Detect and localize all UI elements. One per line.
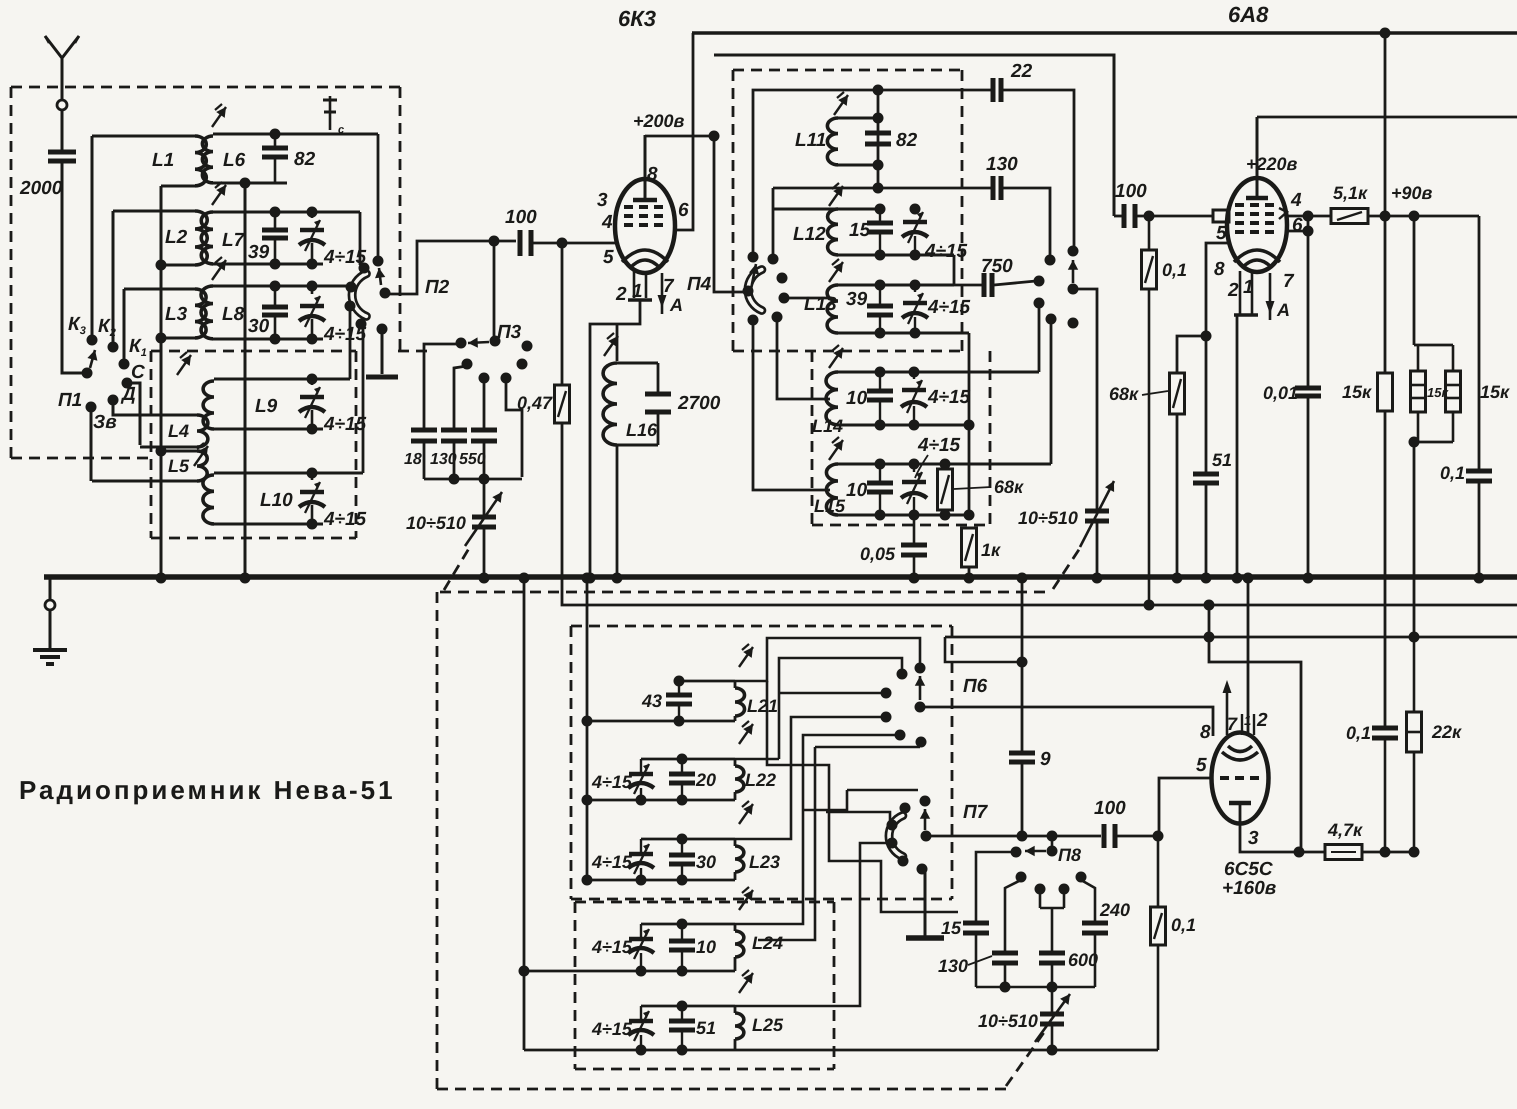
junction rail b <box>1047 982 1058 993</box>
label 2700 <box>677 393 721 414</box>
junction divider bias bus <box>1409 632 1420 643</box>
junction 6A8 cathode ground <box>1232 573 1243 584</box>
junction bias loop <box>1204 600 1215 643</box>
label 10:510 no.1 <box>406 513 466 533</box>
C51sw leads <box>681 1006 683 1050</box>
trimmer 4-15 L14 <box>901 372 927 425</box>
junction 6A8 anode <box>1303 211 1314 222</box>
label L12 <box>793 224 826 245</box>
label 10:510 no.3 <box>978 1011 1038 1031</box>
junction C005 ground <box>909 573 920 584</box>
wire P8ef join <box>1040 891 1064 951</box>
L15 top edge <box>838 463 1051 466</box>
svg-text:43: 43 <box>641 691 662 711</box>
gang link to trimmer C tune3 (dashed) <box>1006 1031 1045 1086</box>
trimmer 4-15 of L9 <box>299 379 325 429</box>
junction R1k ground <box>964 573 975 584</box>
label 30 sw <box>696 852 716 872</box>
label 4:15 L15 leader <box>915 435 961 478</box>
label 10 L15 <box>846 480 868 501</box>
label tube 6C5C <box>1224 859 1273 880</box>
6C5C pin2 lead <box>1242 578 1254 735</box>
junction +200v <box>709 131 720 142</box>
wire grid tap down to P3 <box>493 241 496 338</box>
junction C9 ground <box>1017 573 1028 584</box>
switch P5 contact 5 <box>1046 314 1057 325</box>
ground lead <box>49 610 52 649</box>
wire P3 to C550 <box>483 380 486 428</box>
svg-text:0,47: 0,47 <box>517 393 553 413</box>
svg-text:П4: П4 <box>687 274 712 295</box>
svg-text:Д: Д <box>120 384 136 405</box>
junction 68k tap <box>1201 331 1212 342</box>
junctions L23 <box>582 834 688 886</box>
coil L5 <box>92 451 207 481</box>
coil L14 <box>826 372 838 425</box>
P2 shield stub <box>366 331 398 377</box>
6K3 screen wire to bus A <box>675 33 693 230</box>
wire C130 to P5 <box>1003 188 1050 257</box>
svg-text:+90в: +90в <box>1391 183 1433 203</box>
label 600 <box>1068 950 1098 970</box>
svg-text:10: 10 <box>846 388 868 409</box>
label 6A8 pin 1 <box>1243 277 1254 298</box>
capacitor 750 <box>954 273 992 297</box>
wire P3 to R047 branch <box>506 380 522 477</box>
P3 contact 3 <box>462 359 473 370</box>
svg-text:L4: L4 <box>168 421 189 441</box>
label 10 L14 <box>846 388 868 409</box>
resistor 68k osc <box>938 469 953 510</box>
svg-text:П1: П1 <box>58 390 82 411</box>
svg-text:600: 600 <box>1068 950 1098 970</box>
svg-text:7: 7 <box>1227 714 1238 734</box>
label 6C5C pin 2 <box>1256 710 1268 731</box>
P8 rotor <box>1047 846 1058 857</box>
tuning arrow L7 <box>212 182 226 205</box>
wire C2000 to P1 rotor <box>62 163 84 373</box>
label 100 to 6A8 <box>1115 181 1147 202</box>
L14 bottom edge <box>838 424 969 427</box>
C10b leads <box>879 464 881 515</box>
label 51 <box>1212 450 1232 470</box>
svg-text:L22: L22 <box>745 770 776 790</box>
resistor 1k <box>962 528 977 567</box>
6A8 grid bracket <box>1279 208 1287 219</box>
L7 top edge <box>213 211 360 214</box>
junction anode b <box>1380 847 1391 858</box>
label C <box>131 362 145 383</box>
coil L8 <box>201 286 213 339</box>
svg-text:Радиоприемник Нева-51: Радиоприемник Нева-51 <box>19 775 396 805</box>
svg-text:3: 3 <box>597 190 608 211</box>
svg-text:4,7к: 4,7к <box>1327 820 1363 840</box>
wire C750 to P5 <box>994 281 1036 285</box>
trimmer 4-15 L25 <box>628 1006 654 1050</box>
L12 bottom edge <box>838 254 954 257</box>
switch P2 arc <box>352 274 366 317</box>
P8 contact f <box>1059 884 1070 895</box>
coil L25 <box>735 1013 744 1039</box>
6A8 grid return wire <box>1206 243 1228 472</box>
label P4 <box>687 274 712 295</box>
svg-text:L24: L24 <box>752 933 783 953</box>
junction L2 bottom <box>156 260 167 271</box>
wire C to L4 bottom <box>128 383 140 445</box>
svg-text:L9: L9 <box>255 396 278 417</box>
wire L6 to P2 top contact <box>377 134 380 259</box>
label K2 <box>98 316 116 339</box>
svg-text:30: 30 <box>696 852 716 872</box>
label 6C5C pin 3 <box>1248 828 1259 849</box>
P4 rotor arrow <box>749 264 759 284</box>
svg-text:L14: L14 <box>812 416 843 436</box>
switch P5 contact 3 <box>1068 246 1079 257</box>
svg-text:10÷510: 10÷510 <box>1018 508 1078 528</box>
contact K2 <box>108 342 119 353</box>
switch P7 rotor <box>921 831 932 842</box>
junction C001 ground <box>1303 573 1314 584</box>
svg-text:4÷15: 4÷15 <box>917 435 961 456</box>
label 100 <box>505 207 537 228</box>
trimmer 4-15 L12 <box>902 209 928 255</box>
svg-text:7: 7 <box>1283 271 1295 292</box>
label 0,1 right <box>1440 463 1465 483</box>
wire nest c <box>758 747 920 940</box>
svg-text:2700: 2700 <box>677 393 721 414</box>
svg-text:51: 51 <box>696 1018 716 1038</box>
svg-text:3: 3 <box>1248 828 1259 849</box>
svg-text:9: 9 <box>1040 749 1051 770</box>
coil L2 <box>113 211 207 265</box>
svg-text:20: 20 <box>695 770 716 790</box>
wire L12 to C750 <box>953 255 956 285</box>
label 550 <box>459 451 486 468</box>
label 68k AVC leader <box>1109 384 1168 404</box>
top supply bus A <box>692 31 1517 34</box>
label 130 sw2 leader <box>938 956 992 976</box>
svg-text:5,1к: 5,1к <box>1333 183 1368 203</box>
wire C240 to rail <box>1094 935 1097 987</box>
label 0,47 <box>517 393 553 413</box>
6K3 cathode arcs <box>622 250 668 268</box>
svg-text:4÷15: 4÷15 <box>323 414 367 435</box>
wire C tune1 to ground bus <box>483 529 486 578</box>
capacitor 82 <box>262 148 288 157</box>
label 15 sw2 <box>941 918 962 938</box>
svg-text:8: 8 <box>1214 259 1225 280</box>
6A8 filament arrow A <box>1266 273 1291 320</box>
C005 leads <box>913 515 916 578</box>
divider lower wire <box>1413 442 1416 637</box>
label L14 <box>812 416 843 436</box>
trimmer 4-15 L24 <box>628 924 654 971</box>
svg-text:А: А <box>1276 300 1290 320</box>
svg-text:П6: П6 <box>963 676 988 697</box>
label 4:15 L8 <box>323 324 367 345</box>
6K3 filament arrow A <box>658 273 684 315</box>
L25 bottom edge <box>524 1039 1158 1050</box>
svg-text:2: 2 <box>1227 280 1239 301</box>
resistor 0,1 det <box>1151 907 1166 945</box>
6C5C anode bar <box>1229 801 1251 806</box>
label 15 osc <box>849 220 871 241</box>
svg-text:4÷15: 4÷15 <box>591 937 633 957</box>
wire P8c to C130 <box>1005 880 1021 951</box>
label 0,1 AVC <box>1162 260 1187 280</box>
coil L11 <box>827 118 838 165</box>
junction 6K3 cathode ground <box>585 573 596 584</box>
junction L3 bottom <box>156 333 167 344</box>
svg-text:L21: L21 <box>747 696 778 716</box>
label 6A8 pin 7 <box>1283 271 1295 292</box>
label 4:15 L9 <box>323 414 367 435</box>
junction common ground <box>240 573 251 584</box>
L21 bottom edge <box>587 716 735 721</box>
anode load wire <box>1299 851 1415 854</box>
switch P6 rotor <box>915 702 926 713</box>
label 6A8 pin 6 <box>1292 215 1303 236</box>
switch P5 rotor <box>1068 284 1079 295</box>
svg-text:1к: 1к <box>981 540 1001 560</box>
label 9 <box>1040 749 1051 770</box>
label L15 <box>814 496 846 516</box>
wire R01 to AVC bus <box>1148 216 1151 605</box>
svg-text:П8: П8 <box>1058 845 1081 865</box>
label L4 <box>168 421 189 441</box>
label D <box>120 384 136 405</box>
svg-text:750: 750 <box>981 256 1013 277</box>
switch P5 contact 4 <box>1034 298 1045 309</box>
trimmer 4-15 of L10 <box>299 473 325 524</box>
label 0,01 <box>1263 383 1298 403</box>
junction 68k ground <box>1172 573 1183 584</box>
capacitor 9 <box>1009 753 1035 762</box>
label L10 <box>260 490 293 511</box>
wire P4 to L14 <box>777 319 830 399</box>
svg-text:6С5С: 6С5С <box>1224 859 1273 880</box>
wire C100 to 6K3 grid <box>531 242 615 245</box>
tuning arrow L22 <box>739 721 753 744</box>
label 51 sw <box>696 1018 716 1038</box>
svg-text:4÷15: 4÷15 <box>591 1019 633 1039</box>
wire C001 ground <box>1307 398 1310 578</box>
wire C100b to grid nub <box>1137 215 1213 218</box>
svg-text:4÷15: 4÷15 <box>591 852 633 872</box>
wire C22 to P5 <box>1003 90 1074 249</box>
P3 rotor contact <box>490 336 501 347</box>
switch P6 contact e <box>916 737 927 748</box>
switch P5 contact 2 <box>1045 255 1056 266</box>
coil L13 <box>827 285 838 333</box>
junction divider bottom <box>1409 437 1420 448</box>
junctions L15 <box>875 459 975 521</box>
P8 contact a <box>1011 847 1022 858</box>
wire L9 to P2 contact <box>349 306 352 379</box>
coil L10 <box>203 475 214 524</box>
L16 top edge <box>617 362 658 365</box>
svg-text:6К3: 6К3 <box>618 6 656 31</box>
label 240 <box>1099 900 1130 920</box>
svg-text:5: 5 <box>1196 755 1207 776</box>
shield box oscillator coils (dashed) <box>733 70 962 351</box>
svg-text:10: 10 <box>846 480 868 501</box>
L11 bottom edge <box>838 164 878 167</box>
junction P3 tap <box>489 236 500 247</box>
C39 leads <box>274 212 277 264</box>
wire nest b <box>779 658 902 759</box>
6C5C grid lead <box>1159 778 1212 836</box>
wire K1 to L3 <box>123 289 126 360</box>
label 22 <box>1010 61 1033 82</box>
svg-text:L15: L15 <box>814 496 846 516</box>
coil L12 <box>828 209 838 255</box>
L21 top edge <box>679 681 735 688</box>
tuning arrow L10 <box>194 443 208 466</box>
label 68k osc leader <box>954 477 1024 497</box>
divider split top <box>1414 345 1453 371</box>
svg-text:4: 4 <box>1290 190 1302 211</box>
junction +90v a <box>1380 211 1391 222</box>
wire P3 to C18 <box>424 344 459 428</box>
junction L16 ground <box>612 573 623 584</box>
svg-text:5: 5 <box>1216 223 1227 244</box>
secondary return wire L1-L5 <box>160 186 163 578</box>
label Zv <box>93 412 117 433</box>
capacitor 10 L14 <box>867 391 893 400</box>
junctions L21 <box>582 676 685 727</box>
wire L25 to P7 <box>735 843 890 1006</box>
C tune1 arrow <box>465 492 502 546</box>
tube 6A8 envelope <box>1227 178 1287 272</box>
6C5C top arc <box>1222 746 1258 760</box>
svg-text:0,1: 0,1 <box>1346 723 1371 743</box>
switch P7 contact a <box>900 803 911 814</box>
L6 bottom edge <box>213 182 287 185</box>
svg-text:15: 15 <box>941 918 962 938</box>
label L11 <box>795 130 826 151</box>
resistor 15k no.1 <box>1378 373 1393 411</box>
switch P5 arrow <box>1068 260 1078 283</box>
svg-text:82: 82 <box>294 149 316 170</box>
P2 contact f <box>377 324 388 335</box>
label 39 osc <box>846 289 868 310</box>
L8 top edge <box>213 285 349 288</box>
label 6C5C pin 5 <box>1196 755 1207 776</box>
P3 contact 4 <box>517 359 528 370</box>
wire R1k to ground <box>968 567 971 578</box>
junctions L9 <box>307 374 318 435</box>
+90v corner wire <box>1478 216 1481 469</box>
wire D to L4 <box>113 402 118 415</box>
label 82 <box>294 149 316 170</box>
P2 contact b <box>359 263 370 274</box>
coil L1 <box>92 136 206 186</box>
+220v line to right edge <box>1257 116 1517 119</box>
svg-text:L23: L23 <box>749 852 780 872</box>
label L6 <box>223 150 246 171</box>
junction anode a <box>1294 847 1305 858</box>
junctions L14 <box>875 367 975 431</box>
label 4:15 L7 <box>323 247 367 268</box>
wire C600 to rail <box>1051 965 1054 987</box>
P4 rotor contact <box>743 286 754 297</box>
ground bus left drop <box>49 578 52 599</box>
trimmer 4-15 of L7 <box>299 212 325 264</box>
svg-text:8: 8 <box>647 164 658 185</box>
wire bias bus to 6C5C anode loop <box>1209 605 1301 848</box>
chassis terminal circle <box>45 600 55 610</box>
capacitor 0,1 right <box>1466 471 1492 481</box>
bias bus left jog <box>945 637 1028 668</box>
ground bus (chassis) <box>44 574 1517 579</box>
capacitor 0,1 no.5 <box>1372 728 1398 738</box>
capacitor 130 sw2 <box>992 953 1018 963</box>
feedback wire <box>773 187 991 190</box>
L7 bottom edge <box>213 263 323 266</box>
trimmer 4-15 L23 <box>628 839 654 880</box>
wire 68k to ground <box>1176 414 1179 578</box>
switch P1 rotor contact <box>82 368 93 379</box>
label L8 <box>222 304 245 325</box>
resistor 22k <box>1407 712 1422 752</box>
label 39 <box>248 242 270 263</box>
label 2000 <box>19 178 63 199</box>
switch P7 top contact <box>920 796 931 807</box>
wire nest staircase <box>767 681 958 912</box>
svg-text:0,05: 0,05 <box>860 544 896 564</box>
R22k leads <box>1413 637 1416 852</box>
junction tune3 <box>1047 1045 1058 1056</box>
junctions L13 <box>875 280 921 339</box>
L13 top edge <box>838 284 954 287</box>
label +160v <box>1222 878 1276 899</box>
resistor 0,47 <box>555 385 570 423</box>
svg-text:с: с <box>338 124 344 136</box>
P4 contact 1 <box>748 252 759 263</box>
P7 rotor output wire <box>930 835 1101 838</box>
label 750 <box>981 256 1013 277</box>
junction +90v b <box>1409 211 1420 222</box>
coil L16 <box>603 363 617 445</box>
C tune2 arrow <box>1080 481 1114 547</box>
switch P7 contact b <box>887 820 898 831</box>
switch P6 contact b <box>881 688 892 699</box>
svg-text:6А8: 6А8 <box>1228 2 1269 27</box>
junction L11 b <box>873 160 884 171</box>
resistor 0,1 AVC <box>1142 250 1157 289</box>
svg-text:L11: L11 <box>795 130 826 151</box>
capacitor 100 to 6A8 <box>1114 204 1135 228</box>
6A8 anode out wire <box>1287 215 1331 218</box>
svg-text:L16: L16 <box>626 420 658 440</box>
svg-text:6: 6 <box>1292 215 1303 236</box>
junction L6 bottom <box>240 178 251 189</box>
6A8 anode bar <box>1246 196 1268 201</box>
label 4:15 L10 <box>323 509 367 530</box>
wire L23 to P6 <box>735 717 886 839</box>
6C5C grid row <box>1220 776 1262 780</box>
label 6K3 pin 5 <box>603 247 614 268</box>
label 0,1 no.5 <box>1346 723 1371 743</box>
tuning arrow L24 <box>739 887 753 910</box>
label L2 <box>165 227 188 248</box>
6A8 cathode leads <box>1234 271 1258 578</box>
switch P7 arc <box>889 816 903 857</box>
L6 top edge <box>213 133 378 136</box>
label +200v <box>633 111 685 131</box>
label 6K3 pin 7 <box>663 276 675 297</box>
